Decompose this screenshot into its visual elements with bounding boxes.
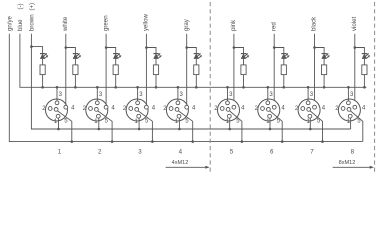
connector X5 pin 5 hole (center): [226, 108, 230, 112]
connector X4 pin 3 hole: [176, 101, 180, 105]
wire LED branch X4: [187, 48, 197, 54]
wire pin5 X6 diagonal to earth: [270, 111, 282, 142]
resistor R8: [362, 65, 367, 75]
junction pin1 X3 on plus bus: [138, 128, 141, 131]
arrow 4xM12 extent: [166, 166, 208, 168]
connector X7 M12 socket body: [298, 99, 320, 121]
svg-text:pink: pink: [230, 19, 237, 31]
wire brown trunk + plus bus: [31, 34, 350, 129]
connector X1 pin 5 hole (center): [54, 108, 58, 112]
wire resistor-to-bus power: [42, 75, 44, 88]
LED status X1: [73, 53, 81, 58]
LED status X3: [153, 53, 161, 58]
junction chain power on minus bus: [41, 86, 44, 89]
wire LED-to-resistor X5: [243, 59, 245, 65]
wire pin1 X2 to plus bus: [98, 118, 100, 129]
junction pin3 X2 on minus bus: [96, 86, 99, 89]
svg-text:gray: gray: [183, 18, 190, 31]
wire signal gray drop to X4 pin 4: [186, 34, 188, 106]
junction pin3 X8 on minus bus: [347, 86, 350, 89]
connector X8 pin 5 hole (center): [347, 108, 351, 112]
connector X4 pin 5 hole (center): [175, 108, 179, 112]
wire pin3 X7 to minus bus: [307, 87, 309, 101]
connector X2 pin 4 hole: [104, 105, 108, 109]
connector X3 M12 socket body: [126, 99, 148, 121]
svg-text:(+): (+): [29, 3, 36, 11]
connector X6 pin 3 hole: [266, 101, 270, 105]
svg-text:black: black: [311, 16, 318, 31]
wire pin1 X1 to plus bus: [58, 118, 60, 129]
connector X3 pin 1 hole: [137, 114, 141, 118]
svg-text:2: 2: [98, 149, 102, 156]
wire LED-to-resistor power: [42, 59, 44, 65]
connector X7 pin 5 hole (center): [307, 108, 311, 112]
connector X1 pin 2 hole: [48, 107, 52, 111]
connector X4 M12 socket body: [166, 99, 188, 121]
wire pin5 X5 diagonal to earth: [230, 111, 242, 142]
connector X8 pin 2 hole: [341, 107, 345, 111]
junction power branch on brown trunk: [30, 45, 33, 48]
junction pin5 X2 on earth bus: [111, 140, 114, 143]
connector X1 pin 1 hole: [56, 114, 60, 118]
svg-text:violet: violet: [351, 16, 358, 31]
connector X1 M12 socket body: [46, 99, 68, 121]
junction pin1 X4 on plus bus: [178, 128, 181, 131]
wire pin1 X7 to plus bus: [309, 118, 311, 129]
wire pin3 X4 to minus bus: [177, 87, 179, 101]
connector X7 pin 2 hole: [301, 107, 305, 111]
wire signal pink drop to X5 pin 4: [233, 34, 235, 106]
connector X6 M12 socket body: [258, 99, 280, 121]
resistor R7: [322, 65, 327, 75]
wire blue trunk + minus bus: [20, 34, 367, 88]
LED status X5: [241, 53, 249, 58]
junction pin1 X2 on plus bus: [98, 128, 101, 131]
wire signal violet drop to X8 pin 4: [354, 34, 356, 106]
junction LED branch on red wire: [273, 46, 276, 49]
wire resistor-to-bus X8: [363, 75, 365, 88]
resistor R3: [153, 65, 158, 75]
svg-text:green: green: [102, 15, 109, 31]
wire LED branch X8: [355, 48, 365, 54]
connector X5 M12 socket body: [218, 99, 240, 121]
resistor R4: [194, 65, 199, 75]
resistor R6: [281, 65, 286, 75]
wire resistor-to-bus X2: [115, 75, 117, 88]
LED status X6: [281, 53, 289, 58]
connector X1 pin 4 hole: [64, 105, 68, 109]
svg-text:4: 4: [179, 149, 183, 156]
wire LED branch X1: [66, 48, 76, 54]
wire signal red drop to X6 pin 4: [273, 34, 275, 106]
junction pin5 X3 on earth bus: [151, 140, 154, 143]
wire resistor-to-bus X4: [195, 75, 197, 88]
wire LED-to-resistor X1: [74, 59, 76, 65]
connector X5 pin 4 hole: [232, 105, 236, 109]
connector X2 pin 2 hole: [89, 107, 93, 111]
wire LED-to-resistor X6: [283, 59, 285, 65]
svg-text:1: 1: [58, 149, 62, 156]
junction pin5 X6 on earth bus: [281, 140, 284, 143]
wire power branch to power LED: [31, 47, 42, 54]
junction LED branch on white wire: [65, 46, 68, 49]
connector X7 pin 1 hole: [308, 114, 312, 118]
junction pin3 X3 on minus bus: [136, 86, 139, 89]
wire LED branch X3: [146, 48, 156, 54]
junction LED branch on violet wire: [354, 46, 357, 49]
junction pin1 X7 on plus bus: [309, 128, 312, 131]
wire pin3 X1 to minus bus: [56, 87, 58, 101]
svg-text:red: red: [270, 22, 277, 31]
wire pin1 X8 to plus bus: [350, 118, 352, 129]
resistor R2: [113, 65, 118, 75]
junction pin1 X1 on plus bus: [57, 128, 60, 131]
connector X6 pin 4 hole: [272, 105, 276, 109]
wire pin3 X3 to minus bus: [137, 87, 139, 101]
resistor R5: [241, 65, 246, 75]
connector X3 pin 4 hole: [145, 105, 149, 109]
wire LED-to-resistor X7: [323, 59, 325, 65]
junction chain X7 on minus bus: [323, 86, 326, 89]
wire LED-to-resistor X2: [115, 59, 117, 65]
junction pin3 X1 on minus bus: [56, 86, 59, 89]
wire pin1 X6 to plus bus: [269, 118, 271, 129]
connector X4 pin 1 hole: [177, 114, 181, 118]
wire LED branch X2: [106, 48, 116, 54]
wire resistor-to-bus X1: [74, 75, 76, 88]
wire pin3 X5 to minus bus: [227, 87, 229, 101]
wire pin3 X2 to minus bus: [96, 87, 98, 101]
connector X2 M12 socket body: [86, 99, 108, 121]
connector X5 pin 2 hole: [220, 107, 224, 111]
junction pin3 X5 on minus bus: [226, 86, 229, 89]
svg-text:8: 8: [351, 149, 355, 156]
svg-text:7: 7: [310, 149, 314, 156]
svg-text:blue: blue: [17, 19, 24, 31]
LED status X8: [362, 53, 370, 58]
wire resistor-to-bus X5: [243, 75, 245, 88]
wire LED-to-resistor X8: [363, 59, 365, 65]
connector X6 pin 1 hole: [268, 114, 272, 118]
connector X1 pin 3 hole: [55, 101, 59, 105]
svg-text:(-): (-): [17, 3, 24, 9]
resistor R power: [40, 65, 45, 75]
connector X7 pin 3 hole: [306, 101, 310, 105]
connector X5 pin 1 hole: [227, 114, 231, 118]
connector X3 pin 3 hole: [136, 101, 140, 105]
wire pin5 X1 diagonal to earth: [58, 111, 72, 142]
wire pin1 X4 to plus bus: [178, 118, 180, 129]
wire resistor-to-bus X7: [323, 75, 325, 88]
wire pin1 X3 to plus bus: [138, 118, 140, 129]
junction chain X6 on minus bus: [283, 86, 286, 89]
wire signal white drop to X1 pin 4: [65, 34, 67, 106]
junction LED branch on yellow wire: [145, 46, 148, 49]
connector X2 pin 3 hole: [95, 101, 99, 105]
wire signal green drop to X2 pin 4: [105, 34, 107, 106]
wire pin5 X2 diagonal to earth: [98, 111, 112, 142]
resistor R1: [73, 65, 78, 75]
wire pin3 X6 to minus bus: [267, 87, 269, 101]
connector X3 pin 5 hole (center): [135, 108, 139, 112]
svg-text:3: 3: [138, 149, 142, 156]
junction pin5 X5 on earth bus: [241, 140, 244, 143]
wire LED branch X7: [315, 48, 325, 54]
wire LED-to-resistor X3: [155, 59, 157, 65]
LED status X7: [322, 53, 330, 58]
wire resistor-to-bus X3: [155, 75, 157, 88]
wire signal yellow drop to X3 pin 4: [145, 34, 147, 106]
junction LED branch on green wire: [105, 46, 108, 49]
svg-text:4xM12: 4xM12: [172, 160, 189, 166]
variant separator dashed line (8xM12): [374, 2, 376, 172]
junction pin3 X7 on minus bus: [307, 86, 310, 89]
svg-text:gn/ye: gn/ye: [7, 15, 14, 31]
junction chain X8 on minus bus: [363, 86, 366, 89]
junction pin5 X7 on earth bus: [321, 140, 324, 143]
connector X8 pin 3 hole: [347, 101, 351, 105]
svg-text:6: 6: [270, 149, 274, 156]
svg-text:yellow: yellow: [143, 13, 150, 31]
connector X8 pin 4 hole: [353, 105, 357, 109]
wire pin1 X5 to plus bus: [229, 118, 231, 129]
svg-text:white: white: [62, 16, 69, 32]
junction chain X2 on minus bus: [114, 86, 117, 89]
junction chain X4 on minus bus: [195, 86, 198, 89]
connector X4 pin 4 hole: [185, 105, 189, 109]
svg-text:8xM12: 8xM12: [339, 160, 356, 166]
wire LED branch X5: [234, 48, 244, 54]
wire pin5 X4 diagonal to earth: [178, 111, 192, 142]
junction pin3 X6 on minus bus: [267, 86, 270, 89]
connector X7 pin 4 hole: [313, 105, 317, 109]
LED power: [40, 53, 48, 58]
junction pin1 X5 on plus bus: [228, 128, 231, 131]
wire signal black drop to X7 pin 4: [314, 34, 316, 106]
junction LED branch on black wire: [313, 46, 316, 49]
wire pin5 X8 diagonal to earth: [350, 111, 362, 142]
connector X3 pin 2 hole: [129, 107, 133, 111]
connector X8 M12 socket body: [338, 99, 360, 121]
connector X2 pin 5 hole (center): [95, 108, 99, 112]
wire gn/ye trunk + earth bus: [9, 34, 362, 142]
connector X6 pin 2 hole: [261, 107, 265, 111]
junction pin1 X6 on plus bus: [269, 128, 272, 131]
arrow 8xM12 extent: [333, 166, 373, 168]
junction pin3 X4 on minus bus: [177, 86, 180, 89]
svg-text:brown: brown: [29, 14, 36, 31]
connector X8 pin 1 hole: [348, 114, 352, 118]
variant separator dashed line (4xM12): [209, 2, 211, 172]
connector X4 pin 2 hole: [169, 107, 173, 111]
junction LED branch on pink wire: [233, 46, 236, 49]
svg-text:5: 5: [230, 149, 234, 156]
junction chain X5 on minus bus: [242, 86, 245, 89]
junction pin5 X4 on earth bus: [191, 140, 194, 143]
wire LED branch X6: [274, 48, 284, 54]
connector X5 pin 3 hole: [226, 101, 230, 105]
junction pin5 X1 on earth bus: [71, 140, 74, 143]
wire LED-to-resistor X4: [195, 59, 197, 65]
LED status X2: [113, 53, 121, 58]
wire pin5 X7 diagonal to earth: [310, 111, 322, 142]
junction LED branch on gray wire: [185, 46, 188, 49]
LED status X4: [194, 53, 202, 58]
junction chain X3 on minus bus: [155, 86, 158, 89]
junction chain X1 on minus bus: [74, 86, 77, 89]
wire pin5 X3 diagonal to earth: [138, 111, 152, 142]
wire resistor-to-bus X6: [283, 75, 285, 88]
connector X2 pin 1 hole: [97, 114, 101, 118]
connector X6 pin 5 hole (center): [267, 108, 271, 112]
wire pin3 X8 to minus bus: [347, 87, 349, 101]
